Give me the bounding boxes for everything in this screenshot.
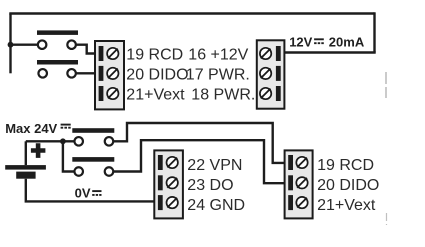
wire: 0V return from battery negative to 24 GND xyxy=(26,179,156,202)
wire: S4 to terminal 20 of X4 xyxy=(113,140,286,183)
terminal X3 pin 24 xyxy=(158,195,178,210)
value label 12V dc 20mA xyxy=(289,34,365,49)
dashed separator mark (upper right) xyxy=(385,72,387,98)
svg-text:16 +12V: 16 +12V xyxy=(188,47,248,64)
svg-text:18 PWR.: 18 PWR. xyxy=(191,87,255,104)
DC symbol after Max 24V xyxy=(61,125,71,128)
svg-text:22 VPN: 22 VPN xyxy=(187,157,242,174)
wire: battery positive up to switch feed xyxy=(25,141,27,165)
svg-text:20 DIDO: 20 DIDO xyxy=(126,67,188,84)
wire: from +12V terminal to right drop xyxy=(284,51,376,53)
battery plus sign xyxy=(31,143,46,158)
DC symbol after 0V xyxy=(92,191,101,195)
svg-text:19 RCD: 19 RCD xyxy=(126,47,183,64)
wire: junction down to switch S4 xyxy=(63,141,75,171)
battery positive plate xyxy=(5,165,46,170)
terminal X1 pin 21 xyxy=(99,86,119,101)
svg-text:20 DIDO: 20 DIDO xyxy=(317,177,379,194)
terminal block X2 (pins 16-18, supply side) xyxy=(257,40,285,108)
svg-text:0V: 0V xyxy=(75,185,91,200)
dashed separator mark (lower right) xyxy=(386,213,388,225)
terminal block X1 (pins 19-21) xyxy=(95,41,124,109)
wire: junction to upper switch contact xyxy=(11,44,39,46)
wire: S2 to terminal 20 xyxy=(76,72,97,74)
svg-text:20mA: 20mA xyxy=(329,34,365,49)
svg-text:19 RCD: 19 RCD xyxy=(317,157,374,174)
DC symbol after 12V xyxy=(314,39,324,43)
terminal X1 pin 19 xyxy=(99,46,119,61)
terminal X2 pin 18 xyxy=(260,86,281,101)
svg-text:21+Vext: 21+Vext xyxy=(317,197,376,214)
wire: battery feed to junction and switch S3 xyxy=(26,140,75,142)
switch S3 (upper NO contact pair, lower circuit) xyxy=(72,128,114,145)
wire: top horizontal rail xyxy=(9,12,374,14)
switch S2 (lower NO contact pair) xyxy=(37,60,78,78)
switch S1 (upper NO contact pair) xyxy=(37,30,78,49)
terminal X4 pin 20 xyxy=(288,175,307,190)
svg-text:21+Vext: 21+Vext xyxy=(126,87,185,104)
terminal X3 pin 22 xyxy=(158,155,178,170)
wire: right vertical drop of top rail xyxy=(373,12,375,52)
terminal block X3 (pins 22-24) xyxy=(154,150,183,218)
battery B1 xyxy=(5,143,46,179)
wire: left vertical bus from top rail to lower switch row xyxy=(9,14,11,74)
svg-text:24 GND: 24 GND xyxy=(187,197,245,214)
node: junction on left bus at upper switch row xyxy=(8,42,14,48)
svg-text:17 PWR.: 17 PWR. xyxy=(186,67,250,84)
battery negative plate xyxy=(16,172,35,179)
wire: S3 to terminal 19 of X4 xyxy=(113,123,286,163)
svg-text:23 DO: 23 DO xyxy=(187,177,233,194)
terminal X4 pin 19 xyxy=(288,155,307,170)
terminal X2 pin 16 xyxy=(260,46,281,61)
switch S4 (lower NO contact pair, lower circuit) xyxy=(72,157,114,176)
terminal X1 pin 20 xyxy=(99,66,119,81)
node: junction feeding both lower switches xyxy=(60,138,66,144)
terminal X4 pin 21 xyxy=(288,195,307,210)
svg-text:Max 24V: Max 24V xyxy=(5,121,57,136)
terminal block X4 (pins 19-21, lower right) xyxy=(285,150,313,218)
terminal X2 pin 17 xyxy=(260,66,281,81)
svg-text:12V: 12V xyxy=(289,34,312,49)
terminal X3 pin 23 xyxy=(158,175,178,190)
wire: S1 to terminal 19 with jog xyxy=(76,45,97,54)
